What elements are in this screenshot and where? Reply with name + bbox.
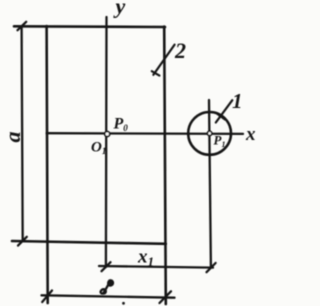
svg-text:a: a bbox=[0, 132, 25, 143]
tick a bottom bbox=[18, 237, 27, 246]
tick x1 left bbox=[102, 262, 111, 271]
wire left edge of plate (extended down) bbox=[47, 26, 48, 303]
leader line 2 bbox=[153, 45, 174, 75]
tick b left bbox=[42, 291, 52, 303]
wire bottom edge of plate (extended left) bbox=[12, 241, 166, 244]
svg-text:2: 2 bbox=[174, 38, 186, 63]
label b bbox=[101, 280, 113, 293]
tick b right bbox=[160, 291, 172, 303]
wire x-axis bbox=[47, 132, 243, 135]
leader line 1 bbox=[216, 100, 233, 122]
wire dimension line a bbox=[22, 26, 23, 241]
tick x1 right bbox=[207, 263, 216, 272]
wire top edge of plate (extended left) bbox=[14, 25, 165, 28]
svg-text:1: 1 bbox=[232, 89, 243, 113]
hole circle 1 bbox=[188, 112, 231, 155]
tick on leader 1 bbox=[217, 114, 225, 120]
wire dimension line x1 bbox=[99, 266, 213, 268]
node P1 circle center marker bbox=[207, 131, 211, 135]
tick on leader 2 bbox=[152, 71, 160, 75]
svg-text:x: x bbox=[245, 124, 256, 145]
wire circle centerline bbox=[209, 100, 211, 267]
node P0 origin marker bbox=[105, 132, 110, 137]
wire dimension line b bbox=[42, 295, 175, 297]
wire y-axis centerline bbox=[105, 17, 108, 267]
wire right edge of plate (extended down) bbox=[164, 27, 166, 305]
tick a top bbox=[18, 22, 27, 30]
ink speck bbox=[122, 302, 125, 305]
